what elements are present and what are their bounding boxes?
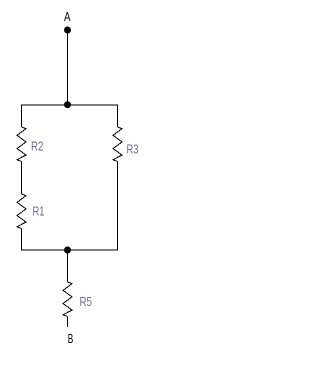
resistor R3 [113, 127, 122, 162]
wire R3 to bottom rail [117, 162, 119, 251]
wire left branch upper stub [21, 105, 23, 128]
node A terminal dot [64, 27, 71, 34]
svg-text:R1: R1 [33, 205, 45, 219]
resistor R5 [63, 282, 72, 317]
wire right branch upper stub [117, 105, 119, 128]
svg-text:R5: R5 [80, 295, 93, 309]
top rail wire [21, 104, 118, 106]
bottom rail wire [21, 249, 118, 251]
svg-text:A: A [64, 10, 71, 24]
junction dot top [64, 101, 71, 108]
svg-text:B: B [68, 332, 74, 346]
resistor R1 [17, 194, 26, 229]
svg-text:R2: R2 [31, 140, 44, 154]
junction dot bottom [64, 247, 71, 254]
resistor R2 [17, 127, 26, 162]
wire bottom junction to R5 [67, 250, 69, 282]
wire R5 to node B [67, 317, 69, 328]
wire R1 to bottom rail [21, 229, 23, 251]
svg-text:R3: R3 [127, 143, 139, 157]
wire between R2 and R1 [21, 162, 23, 195]
wire from node A down to top rail [67, 30, 69, 105]
